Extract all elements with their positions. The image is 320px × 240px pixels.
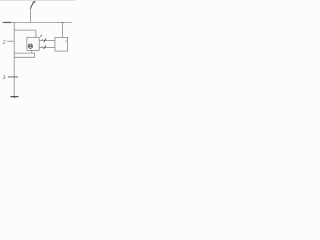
node 1 numeral with leader [31,2,36,9]
branch wire to motor box [14,30,36,37]
top scan edge [0,0,75,2]
svg-text:3: 3 [2,75,6,81]
wire W2 motor to converter [39,46,55,48]
numeral 4 leader [40,35,42,37]
svg-text:2: 2 [3,39,6,45]
junction on bus [61,22,63,23]
motor bottom stub [31,50,33,53]
bus heavy left segment [3,22,11,23]
bottom terminal bar [10,96,18,98]
bus L1 horizontal line [2,21,72,23]
small mark above W2 [41,45,42,47]
mark inside converter box [65,40,68,42]
leader for 2 [7,40,13,42]
slash tick on W1 [44,38,46,42]
return loop right end [34,53,36,57]
converter box 6 [55,37,68,51]
slash tick on W2 [44,45,46,49]
left feeder vertical wire [13,22,15,96]
wire W1 motor to converter [39,40,55,42]
motor box 4 [27,37,39,50]
return loop upper rail [14,52,34,54]
terminal nub [14,97,15,98]
drop wire from bus to converter box [61,22,63,37]
motor M letter [29,45,31,48]
crossbar tick at 3 [8,76,18,78]
return loop lower rail [14,56,34,58]
motor M circle [28,44,32,48]
background [0,0,75,100]
small mark above W1 [42,39,43,41]
wire from node 1 to bus [30,9,32,23]
